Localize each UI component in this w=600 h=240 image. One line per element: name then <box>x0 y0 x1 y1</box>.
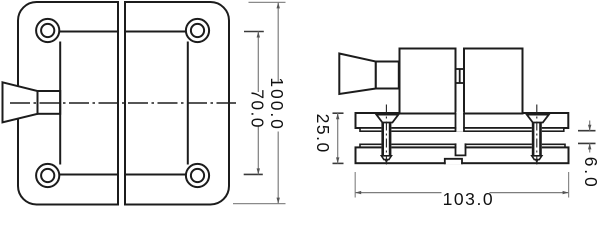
screw right <box>527 105 549 167</box>
tab channel through upper plate <box>456 112 463 132</box>
hole bottom-right outer <box>186 164 209 187</box>
dim 25.0 extension bottom <box>333 162 344 164</box>
tongue neck rectangle (front view) <box>38 91 61 114</box>
plate right half <box>125 2 229 205</box>
panel line left half vertical <box>59 42 61 165</box>
hole bottom-right inner <box>191 169 204 182</box>
block gap connector <box>456 68 465 70</box>
dim line 25.0 <box>337 113 339 163</box>
svg-text:25.0: 25.0 <box>313 114 333 153</box>
hole top-left outer <box>36 19 59 42</box>
hole bottom-left outer <box>36 164 59 187</box>
dim 103.0 extension left <box>354 172 356 198</box>
notch in lower assembly <box>456 143 464 155</box>
block left <box>400 49 456 114</box>
dim 6.0 extension bottom <box>578 142 596 144</box>
dim line 70.0 <box>257 32 259 93</box>
upper plate <box>356 113 569 128</box>
svg-text:103.0: 103.0 <box>443 189 493 208</box>
lower thin strip <box>360 144 565 147</box>
screw left <box>376 105 398 167</box>
panel line left half bottom <box>48 174 118 176</box>
horizontal centerline front view <box>10 102 236 104</box>
dim 100.0 extension top <box>249 1 286 3</box>
side tongue trapezoid <box>339 54 376 95</box>
dim line 103.0 <box>355 192 441 194</box>
block right <box>464 49 523 114</box>
dim line 6.0 top <box>589 121 591 131</box>
svg-text:100.0: 100.0 <box>267 77 287 129</box>
plate left half <box>18 2 118 205</box>
panel line right half bottom <box>125 174 198 176</box>
dim 103.0 extension right <box>568 172 570 198</box>
hole top-right outer <box>186 19 209 42</box>
dim 25.0 extension top <box>333 112 344 114</box>
dim line 6.0 bottom <box>589 143 591 152</box>
svg-text:70.0: 70.0 <box>247 89 267 128</box>
dim 70.0 extension bottom <box>244 173 263 175</box>
panel line right half vertical <box>187 42 189 165</box>
side tongue neck <box>376 62 399 89</box>
dim 6.0 extension top <box>578 130 596 132</box>
lower plate <box>356 147 569 163</box>
step in lower plate bottom <box>446 158 462 164</box>
hole top-left inner <box>41 24 54 37</box>
dim 70.0 extension top <box>244 31 264 33</box>
tongue trapezoid (front view) <box>3 82 38 122</box>
hole top-right inner <box>191 24 204 37</box>
hole bottom-left inner <box>41 169 54 182</box>
panel line left half top <box>48 31 118 33</box>
dim line 100.0 <box>277 2 279 81</box>
upper thin strip <box>360 128 564 131</box>
dim 100.0 extension bottom <box>233 203 286 205</box>
panel line right half top <box>125 31 198 33</box>
svg-text:6.0: 6.0 <box>581 157 600 187</box>
